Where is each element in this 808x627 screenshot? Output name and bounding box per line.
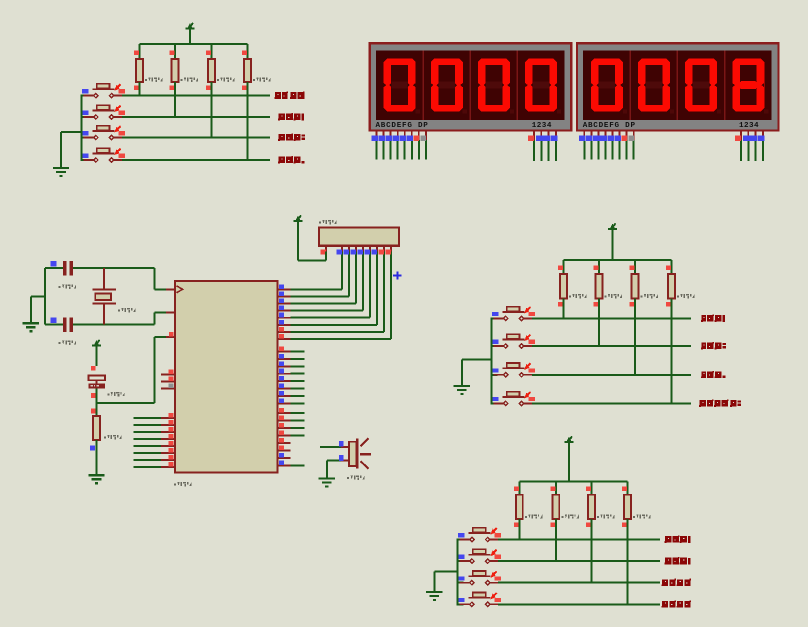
ground speaker [319,478,335,487]
pin squares R5 [558,266,563,307]
origin marker [393,271,401,279]
value label R11 [597,514,614,518]
value label R10 [561,514,578,518]
pin squares R8 [666,266,671,307]
button S11 [458,571,501,585]
resistor R8 [668,274,675,299]
resistor R7 [632,274,639,299]
svg-text:ABCDEFG DP: ABCDEFG DP [583,122,636,130]
resistor R10 [553,495,560,519]
part label LS1 [347,475,364,479]
wire R12 to row 4 [627,519,629,604]
wire reset node [97,337,176,403]
wire R3 top stub [211,44,213,59]
resistor R13 [90,403,100,475]
wire VCC to RP1 pin1 [298,252,326,261]
value label C1 [59,284,76,288]
wire VCC rail block C [519,480,627,482]
wire row 2 block C [457,560,661,562]
value label R12 [633,514,650,518]
power VCC block B [608,223,617,260]
pins P1.0-P1.7 [133,413,175,467]
pins P3.0-P3.7 [278,408,305,466]
button S9 [458,528,501,542]
wire button bus block B [490,318,492,403]
wire R6 top stub [598,260,600,274]
pin RST square [169,332,174,337]
value label R9 [525,514,542,518]
wire R3 to row 3 [211,82,213,138]
ground block A [53,167,69,176]
value label R5 [569,294,586,298]
button S8 [492,392,535,406]
segment pins display DS1 0000 [371,131,426,160]
value label R13 [104,435,121,439]
resistor R3 [208,59,215,82]
wire R2 to row 2 [174,82,176,117]
wire row 2 block A [80,116,270,118]
wire R2 top stub [174,44,176,59]
value label R2 [181,77,198,81]
wire row 3 block A [80,137,270,139]
pin squares R1 [134,51,139,90]
wire R8 to row 4 [671,299,673,404]
button S4 [82,148,125,162]
wire XTAL bottom net [45,312,175,324]
pin squares R10 [550,486,555,526]
value label R7 [641,294,658,298]
resistor R6 [596,274,603,299]
value label C3 [107,392,124,396]
ground block B [454,385,470,394]
pin squares R12 [622,486,627,526]
wire R1 to row 1 [139,82,141,96]
net label net row3 C [662,579,692,586]
wire row 3 block C [457,582,661,584]
button S12 [458,593,501,607]
wire R10 to row 2 [555,519,557,561]
net label net row1 B [701,314,725,321]
wire row 3 block B [490,374,691,376]
capacitor C2 [51,317,73,332]
wire button bus block A [80,96,82,160]
wire R11 to row 3 [591,519,593,583]
crystal X1 [92,268,116,324]
speaker LS1 [320,438,371,478]
pin squares R7 [630,266,635,307]
digit select pins display DS1 0000 [528,131,558,162]
net label net row2 B [701,342,726,349]
value label R1 [145,77,162,81]
wire button bus block C [457,540,459,605]
net label net row3 B [701,371,725,378]
wire R4 top stub [247,44,249,59]
wire R12 top stub [627,481,629,494]
value label R8 [677,294,694,298]
display DS2 0008 [577,43,779,130]
wire VCC rail block A [140,43,248,45]
net label net row4 C [662,600,692,607]
wire VCC rail block B [564,259,672,261]
net label net PB0 row1 [274,92,304,99]
pin squares R3 [206,51,211,90]
net label net row1 C [665,536,691,543]
wire row 1 block A [80,95,270,97]
wire R6 to row 2 [598,299,600,347]
svg-text:ABCDEFG DP: ABCDEFG DP [376,122,429,130]
digit select pins display DS2 0008 [735,131,765,162]
wire R7 top stub [634,260,636,274]
power VCC block C [565,436,574,481]
wire ground branch block A [61,132,81,168]
wire R9 top stub [518,481,520,494]
resistor R5 [560,274,567,299]
part label RP1 [319,220,336,224]
wire R5 to row 1 [563,299,565,319]
value label X1 [118,308,135,312]
resistor R9 [516,495,523,519]
wire row 2 block B [490,345,691,347]
value label C2 [59,340,76,344]
button S10 [458,549,501,563]
pin squares R2 [170,51,175,90]
capacitor C3 electrolytic [89,366,105,398]
button S3 [82,126,125,140]
pins P0.0-P0.7 with bus to RP1 [278,251,392,339]
wire R7 to row 3 [634,299,636,375]
wire row 4 block C [457,603,661,605]
resistor R2 [172,59,179,82]
wire R8 top stub [671,260,673,274]
net label net row4 [278,156,304,163]
wire R10 top stub [555,481,557,494]
wire XTAL top net [45,268,175,289]
pin squares R11 [586,486,591,526]
value label R4 [253,77,270,81]
pin squares R4 [242,51,247,90]
wire R4 to row 4 [247,82,249,160]
button S6 [492,334,535,348]
ground crystal circuit [23,322,39,331]
button S2 [82,105,125,119]
value label R6 [605,294,622,298]
resistor R4 [244,59,251,82]
button S7 [492,363,535,377]
button S5 [492,307,535,321]
MCU U1 [175,281,278,473]
segment pins display DS2 0008 [579,131,634,160]
button S1 [82,84,125,98]
net label net row2 [278,113,304,120]
resistor pack RP1 [319,228,399,255]
pin squares R6 [594,266,599,307]
value label R3 [217,77,234,81]
wire ground branch block C [434,572,457,592]
wire row 4 block A [80,159,270,161]
net label net row4 B [699,399,741,406]
capacitor C1 [51,261,73,276]
power VCC block A [186,23,195,44]
resistor R1 [136,59,143,82]
net label net row2 C [665,557,691,564]
svg-text:1234: 1234 [739,122,759,130]
pins PSEN ALE EA [161,369,175,388]
power VCC reset [92,340,101,366]
ground reset circuit [88,474,104,483]
wire cap bus left [31,268,45,324]
pins P2.0-P2.7 [278,347,305,404]
part label U1 [174,482,191,486]
wire row 1 block B [490,317,691,319]
wire R11 top stub [591,481,593,494]
wire ground branch block B [462,359,491,386]
wire R1 top stub [139,44,141,59]
resistor R12 [624,495,631,519]
pin squares R9 [514,486,519,526]
net label net row3 [278,134,305,141]
wire row 1 block C [457,539,661,541]
wire R5 top stub [563,260,565,274]
power VCC RP1 [294,215,303,260]
ground block C [426,591,442,600]
svg-text:1234: 1234 [532,122,552,130]
wire R9 to row 1 [518,519,520,540]
wire row 4 block B [490,402,691,404]
display DS1 0000 [370,43,572,130]
resistor R11 [588,495,595,519]
